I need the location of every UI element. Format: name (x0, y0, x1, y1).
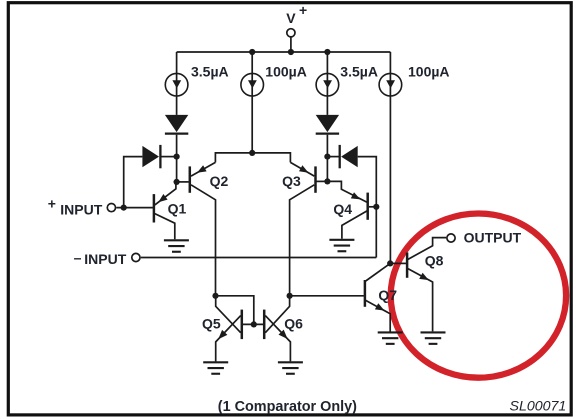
diode D2 (right, series with 3.5uA) (316, 115, 339, 134)
diode D4 (right input clamp) (340, 145, 358, 168)
wire right clamp diode anode down to Q4 base and -INPUT (358, 157, 377, 258)
svg-text:INPUT: INPUT (84, 251, 126, 267)
svg-text:100µA: 100µA (265, 64, 307, 80)
svg-text:Q5: Q5 (202, 316, 221, 332)
svg-text:Q3: Q3 (282, 173, 301, 189)
wire right 3.5uA branch down to diode (326, 52, 328, 115)
svg-text:Q2: Q2 (210, 173, 229, 189)
diode D3 (left input clamp) (142, 145, 160, 168)
svg-text:(1 Comparator Only): (1 Comparator Only) (218, 399, 357, 415)
label Q8 (425, 252, 444, 268)
wire Q7 collector to output node (366, 263, 391, 281)
terminal V+ (287, 29, 295, 37)
wire Q4 base to -INPUT column (369, 206, 376, 208)
diode D1 (left, series with 3.5uA) (165, 115, 188, 134)
wire right 100uA branch down to output node (389, 52, 391, 263)
wire Q2 emitter diagonal (191, 162, 215, 176)
junction dot mirror bases (251, 321, 257, 327)
wire left 3.5uA branch down to diode (176, 52, 178, 115)
wire Q6 collector diagonal (265, 296, 289, 333)
ground under Q4 (329, 240, 354, 251)
wire Q3 emitter diagonal (290, 162, 314, 176)
svg-text:3.5µA: 3.5µA (340, 64, 378, 80)
wire Q4 collector to ground (342, 211, 367, 239)
wire node B to Q4 emitter (327, 181, 366, 202)
transistor Q8 (407, 253, 429, 281)
ground under Q6 (278, 362, 303, 373)
svg-text:100µA: 100µA (408, 64, 450, 80)
current source I2 100uA (241, 73, 264, 96)
svg-text:+: + (299, 2, 307, 18)
wire output node to Q8 base (390, 262, 406, 264)
wire -INPUT lead (141, 257, 376, 259)
terminal OUTPUT (447, 234, 455, 242)
svg-text:Q8: Q8 (425, 252, 444, 268)
svg-text:+: + (48, 195, 56, 211)
wire Q2/Q3 emitter rail (215, 153, 290, 163)
wire Q3 collector down to Q6 collector (290, 185, 315, 296)
svg-text:Q6: Q6 (284, 316, 303, 332)
label Q7 (378, 287, 397, 303)
wire left diode to node A column (176, 135, 178, 182)
label Q3 (282, 173, 301, 189)
wire Q5 collector diagonal (216, 296, 241, 333)
ground under Q7 (378, 332, 403, 343)
label 3.5uA (I1) (191, 64, 229, 80)
label V+ (286, 2, 307, 26)
wire mirror collector-base tie (216, 296, 254, 325)
wire node B to right clamp diode (327, 156, 339, 158)
wire Q2 collector down to Q5 collector (191, 185, 216, 296)
wire Q8 collector to OUTPUT terminal (408, 238, 447, 260)
label Q5 (202, 316, 221, 332)
wire Q2 base to node A (177, 181, 189, 183)
ground under Q5 (203, 362, 228, 373)
figure number SL00071 (510, 399, 567, 415)
label OUTPUT (464, 230, 522, 246)
svg-text:OUTPUT: OUTPUT (464, 230, 522, 246)
red highlight ellipse around output stage (391, 214, 566, 378)
transistor Q2 (190, 165, 207, 193)
wire Q6 collector to Q7 base (290, 295, 364, 297)
svg-text:3.5µA: 3.5µA (191, 64, 229, 80)
junction dot Q5 collector (212, 293, 218, 299)
svg-text:–: – (74, 250, 82, 266)
label Q2 (210, 173, 229, 189)
label 3.5uA (I3) (340, 64, 378, 80)
wire Q3 base to node B (316, 180, 327, 182)
junction dot tail current (249, 150, 255, 156)
svg-text:SL00071: SL00071 (510, 399, 567, 415)
current source I3 3.5uA (316, 73, 339, 96)
wire Q7 emitter to ground (366, 300, 391, 332)
junction dots on supply rail (249, 49, 330, 55)
wire Q1 emitter to node A (155, 182, 176, 205)
wire top supply rail (177, 51, 391, 53)
terminal -INPUT (132, 253, 140, 261)
ground under Q1 (164, 240, 189, 251)
junction dot output node (387, 260, 393, 266)
label 100uA (I4) (408, 64, 450, 80)
label Q6 (284, 316, 303, 332)
wire Q6 emitter to ground (265, 316, 290, 362)
label 100uA (I2) (265, 64, 307, 80)
junction dot Q4 base (373, 204, 379, 210)
svg-text:V: V (286, 10, 296, 26)
wire +INPUT lead to Q1 base (116, 207, 153, 209)
wire V+ stub (290, 37, 292, 52)
wire Q8 emitter to ground (408, 269, 433, 332)
transistor Q3 (299, 165, 316, 193)
wire Q5/Q6 base link (243, 323, 263, 325)
wire 100uA tail branch (251, 52, 253, 153)
wire right diode to node B column (326, 135, 328, 182)
label Q1 (168, 201, 187, 217)
node A junction dots (left diode column) (174, 154, 180, 185)
label -INPUT (74, 250, 127, 268)
ground under Q8 (421, 332, 446, 343)
transistor Q5 (218, 310, 242, 340)
transistor Q7 (365, 280, 385, 311)
svg-text:Q4: Q4 (333, 201, 352, 217)
label +INPUT (48, 195, 103, 217)
label Q4 (333, 201, 352, 217)
junction dot Q6 collector (287, 293, 293, 299)
current source I1 3.5uA (165, 73, 188, 96)
caption (1 Comparator Only) (218, 399, 357, 415)
current source I4 100uA (379, 73, 402, 96)
wire left clamp diode cathode to node A (162, 156, 177, 158)
wire +INPUT feedback loop up to left clamp diode (124, 157, 143, 208)
transistor Q1 (154, 194, 168, 223)
svg-text:Q1: Q1 (168, 201, 187, 217)
transistor Q4 (351, 192, 368, 220)
terminal +INPUT (107, 204, 115, 212)
svg-text:INPUT: INPUT (60, 201, 102, 217)
wire Q1 collector to ground (155, 214, 175, 240)
transistor Q6 (264, 310, 287, 340)
node B junction dots (right diode column) (324, 154, 330, 185)
wire Q5 emitter to ground (216, 316, 241, 362)
junction dot +INPUT (121, 205, 127, 211)
svg-text:Q7: Q7 (378, 287, 397, 303)
